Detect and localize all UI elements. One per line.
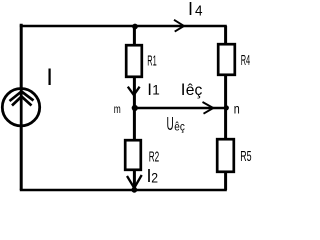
svg-text:m: m — [114, 102, 121, 116]
svg-text:R4: R4 — [241, 52, 251, 69]
svg-text:4: 4 — [195, 3, 203, 20]
svg-text:R2: R2 — [149, 149, 160, 166]
svg-text:U: U — [167, 114, 174, 134]
svg-text:2: 2 — [151, 170, 158, 186]
svg-text:R1: R1 — [147, 53, 157, 70]
svg-text:êç: êç — [186, 82, 203, 99]
svg-text:R5: R5 — [240, 148, 251, 165]
svg-text:I: I — [46, 64, 53, 91]
svg-text:I: I — [147, 80, 152, 99]
svg-text:êç: êç — [174, 121, 185, 133]
svg-text:n: n — [234, 102, 240, 117]
svg-text:I: I — [188, 0, 193, 19]
svg-text:1: 1 — [152, 83, 160, 98]
